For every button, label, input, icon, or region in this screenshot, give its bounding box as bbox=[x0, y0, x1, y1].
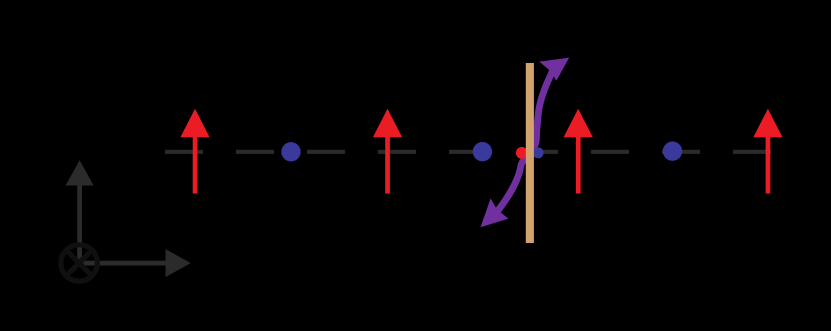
node small blue dot at wall bbox=[533, 147, 544, 158]
node spin-dot D3 bbox=[663, 142, 682, 161]
spin arrow S4 bbox=[753, 109, 782, 194]
rotation arrow (purple S-curve) bbox=[481, 58, 570, 228]
spin arrow S3 bbox=[564, 109, 593, 194]
axis x (horizontal) bbox=[79, 249, 191, 277]
domain wall bar bbox=[526, 63, 534, 243]
spin arrow S2 bbox=[373, 109, 402, 194]
wire chain dashed line bbox=[165, 150, 771, 154]
origin into-page symbol bbox=[61, 245, 97, 281]
node spin-dot D1 bbox=[281, 142, 300, 161]
spin arrow S1 bbox=[180, 109, 209, 194]
axis y (vertical) bbox=[66, 160, 94, 263]
node red dot at wall bbox=[516, 147, 528, 159]
node spin-dot D2 bbox=[473, 142, 492, 161]
